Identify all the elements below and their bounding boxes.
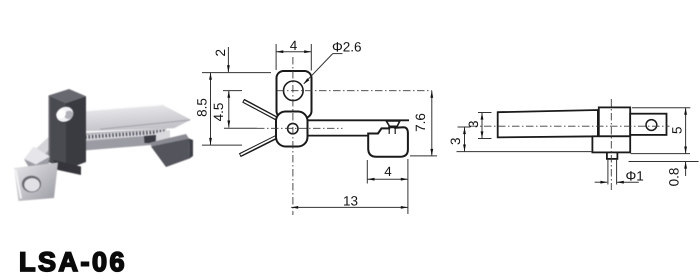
spring wire lower xyxy=(240,137,277,156)
dim 3 outer long extension xyxy=(457,151,593,153)
upper block xyxy=(599,107,630,136)
dim 4 (top) line and arrows xyxy=(276,51,311,53)
horizontal centerline lower circle / arm xyxy=(257,127,343,129)
svg-text:2: 2 xyxy=(213,49,228,57)
dim 4 (foot) extensions xyxy=(366,160,368,184)
bright slider piece xyxy=(156,130,170,144)
svg-text:3: 3 xyxy=(448,138,463,146)
dim phi1 line and arrows xyxy=(595,181,608,183)
dim 4 (foot) line and arrows xyxy=(368,178,408,180)
upper lug outline xyxy=(277,71,312,118)
housing hole xyxy=(53,103,78,127)
arm top line xyxy=(307,119,409,121)
top hole phi2.6 xyxy=(284,81,304,101)
tab hole xyxy=(646,120,657,131)
extension line top circle center (y=90.6) xyxy=(223,90,242,92)
long bar xyxy=(498,110,598,137)
pointed tab (upper silver) xyxy=(24,147,50,172)
extension line lower circle center (y=127.9) xyxy=(224,127,257,129)
dim 5 line and arrows xyxy=(685,108,687,154)
dim 8.5 line and arrows xyxy=(210,73,212,145)
dim 3 inner line and arrows xyxy=(481,113,483,139)
vertical centerline xyxy=(292,57,294,215)
svg-text:13: 13 xyxy=(343,193,358,208)
pivot hole xyxy=(288,123,298,133)
dim 0.8 arrow and tail xyxy=(685,162,687,176)
dim 13 line and arrows xyxy=(291,206,408,208)
dim 2 line and arrow xyxy=(227,47,229,72)
svg-text:4.5: 4.5 xyxy=(211,103,226,122)
lower block xyxy=(592,136,630,152)
spring wire upper xyxy=(243,101,277,119)
dim 3 inner ticks xyxy=(478,112,492,114)
extension line part bottom (y=145.1) xyxy=(202,144,242,146)
rack lower bar xyxy=(84,134,170,151)
hook tooth xyxy=(386,121,400,126)
side tab xyxy=(630,114,666,135)
svg-text:5: 5 xyxy=(670,127,685,135)
dim 7.6 line and arrows xyxy=(431,91,433,156)
dark slot detail xyxy=(144,135,156,143)
extension line top edge (y=72.6) xyxy=(202,72,271,74)
svg-text:LSA-06: LSA-06 xyxy=(19,247,127,277)
end cap block (right) xyxy=(150,134,193,167)
rack teeth band xyxy=(84,129,168,145)
svg-text:7.6: 7.6 xyxy=(413,113,428,132)
svg-text:0.8: 0.8 xyxy=(667,168,682,187)
foot (latch end) xyxy=(368,127,408,157)
pin stub xyxy=(607,152,618,159)
dim 4.5 line and arrows xyxy=(228,91,230,128)
dim 3 outer tick xyxy=(458,126,471,128)
dim 3 outer line and arrows xyxy=(464,127,466,151)
dim 4 (top) extension lines xyxy=(275,44,277,70)
bracket with hole (lower silver) xyxy=(14,163,58,202)
horizontal centerline top circle xyxy=(277,90,432,92)
arm bottom line xyxy=(307,135,369,137)
svg-text:Φ1: Φ1 xyxy=(626,168,644,183)
svg-text:4: 4 xyxy=(290,38,298,53)
svg-text:4: 4 xyxy=(384,164,392,179)
svg-text:8.5: 8.5 xyxy=(194,98,209,117)
housing block (dark) xyxy=(49,89,87,175)
dim 5 extensions xyxy=(632,107,690,109)
strip sliver left of housing xyxy=(34,137,50,174)
svg-text:Φ2.6: Φ2.6 xyxy=(332,39,362,54)
phi1 extension lines xyxy=(607,159,609,185)
top plate (bright blade) xyxy=(84,105,191,132)
dim 7.6 bottom extension xyxy=(410,155,437,157)
foot tab inner lines xyxy=(388,128,390,134)
dim 0.8 bottom extension xyxy=(629,161,699,163)
vertical centerline xyxy=(610,99,612,190)
phi2.6 leader xyxy=(333,53,343,55)
pivot square block xyxy=(276,112,308,147)
horizontal centerline xyxy=(470,125,670,127)
